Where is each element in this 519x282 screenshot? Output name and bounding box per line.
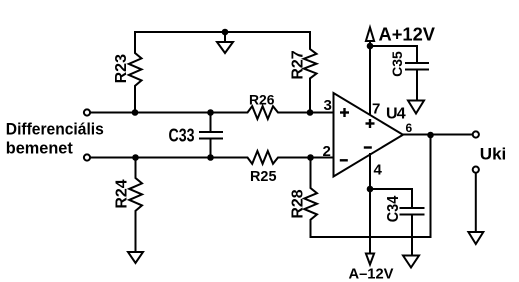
svg-text:4: 4 <box>374 162 383 179</box>
svg-text:Uki: Uki <box>480 145 506 164</box>
svg-text:Differenciális: Differenciális <box>6 120 104 139</box>
svg-text:C35: C35 <box>389 51 405 77</box>
svg-text:2: 2 <box>323 143 331 160</box>
svg-text:C33: C33 <box>169 126 195 146</box>
svg-text:R24: R24 <box>113 179 130 208</box>
svg-text:U4: U4 <box>386 106 406 123</box>
svg-text:3: 3 <box>324 97 332 114</box>
svg-text:R23: R23 <box>113 54 130 83</box>
svg-text:R26: R26 <box>249 92 275 108</box>
svg-text:R27: R27 <box>290 50 307 79</box>
svg-text:C34: C34 <box>385 196 402 223</box>
svg-text:7: 7 <box>372 101 380 118</box>
svg-text:R28: R28 <box>290 189 307 218</box>
svg-text:bemenet: bemenet <box>6 139 73 158</box>
svg-text:R25: R25 <box>250 168 277 185</box>
svg-text:6: 6 <box>406 121 413 135</box>
svg-text:A+12V: A+12V <box>379 25 436 45</box>
svg-text:A–12V: A–12V <box>349 266 394 282</box>
